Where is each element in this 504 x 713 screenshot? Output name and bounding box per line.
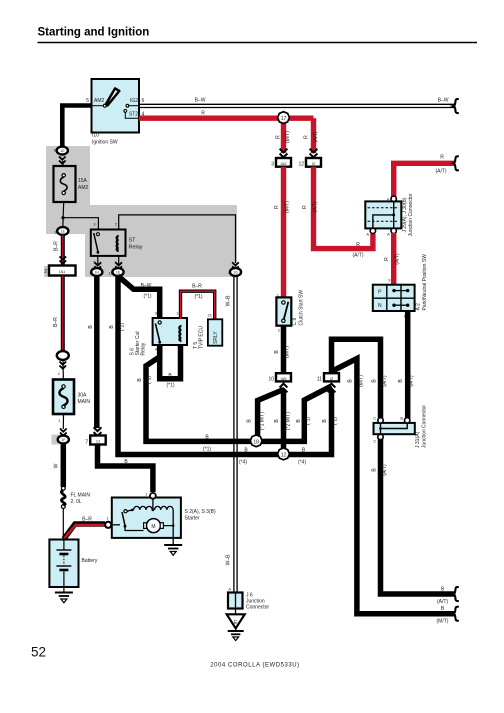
wire from starter cut relay to node 18 to I2 lower [146, 344, 332, 441]
wire node 12 horizontal from oval 1E to I2 lower [118, 276, 332, 455]
ST relay contact [96, 233, 99, 236]
arrow into connector 7 [94, 427, 102, 436]
svg-text:1E: 1E [61, 230, 66, 234]
svg-text:R: R [356, 242, 360, 248]
title underline [38, 42, 478, 44]
svg-text:Ignition SW: Ignition SW [92, 140, 118, 146]
ignition switch ST2 contact [124, 110, 127, 113]
arrow up into I2 lower [328, 384, 336, 393]
svg-text:Battery: Battery [82, 558, 98, 564]
svg-text:(A/T): (A/T) [408, 375, 414, 386]
arrow into connector IA2 [280, 149, 288, 158]
svg-text:Connector: Connector [246, 605, 269, 611]
svg-text:1G: 1G [233, 271, 238, 275]
arrow up into IA5 [280, 384, 288, 393]
svg-text:A: A [228, 587, 231, 592]
wire B-W from IG2 to right edge (double line) [139, 103, 455, 105]
node 18 splice octagon [250, 435, 262, 447]
junction dot on fuse output [61, 216, 64, 219]
svg-text:IA2: IA2 [280, 161, 287, 166]
ST relay box [91, 230, 126, 256]
wire W to fusible link [61, 444, 67, 488]
svg-text:R: R [274, 205, 280, 209]
svg-text:12: 12 [281, 453, 287, 459]
ST relay coil [117, 236, 119, 251]
svg-text:W: W [54, 463, 60, 468]
wire red J30 terminal B up to right edge [394, 163, 454, 197]
wire U loop under starter cut relay [160, 344, 181, 379]
continuation brace for B A/T [453, 607, 458, 621]
svg-text:B–W: B–W [195, 98, 206, 104]
svg-text:(*4): (*4) [298, 460, 306, 466]
svg-text:N: N [378, 303, 382, 309]
svg-text:ST: ST [129, 238, 137, 244]
svg-text:(*1): (*1) [194, 294, 202, 300]
svg-text:ST2: ST2 [129, 112, 138, 118]
terminal A of J29 left [370, 228, 375, 233]
svg-text:(A/T): (A/T) [382, 375, 388, 386]
svg-text:(A/T): (A/T) [382, 464, 388, 475]
node 17 splice octagon [278, 112, 290, 124]
svg-text:(A/T): (A/T) [437, 599, 448, 605]
continuation brace for B-W [453, 99, 458, 113]
wire B park neutral switch to J31 [405, 311, 411, 419]
junction connector J31 [374, 423, 415, 434]
arrow into oval 1E lower [115, 262, 122, 269]
svg-text:Starting and Ignition: Starting and Ignition [38, 27, 150, 39]
wire center vertical IA5 to node 12 [281, 390, 287, 455]
battery [49, 540, 78, 588]
svg-text:(M/T): (M/T) [437, 619, 449, 625]
svg-text:3: 3 [271, 162, 274, 168]
svg-text:C 8: C 8 [292, 318, 298, 326]
svg-text:C: C [373, 416, 376, 421]
svg-text:(*2 M/T): (*2 M/T) [286, 412, 292, 430]
svg-text:IG2: IG2 [130, 98, 138, 104]
oval connector on battery feed [57, 351, 69, 360]
wire ST relay pin 5 down [97, 256, 99, 264]
wire fuse AM2 to oval 1E [62, 202, 65, 228]
continuation brace for R [453, 156, 458, 170]
arrow below oval 1D [59, 157, 66, 164]
svg-text:Relay: Relay [129, 245, 143, 251]
svg-text:A 2: A 2 [416, 303, 422, 310]
svg-text:W–B: W–B [226, 295, 232, 307]
wire B-R IA1 to 30A MAIN [61, 276, 65, 353]
svg-text:2: 2 [44, 269, 47, 275]
wire: AM2 feed from ignition switch pin 5 to junction block [62, 106, 92, 148]
wire branch to ST relay pin 3 [63, 218, 98, 230]
svg-text:B–R: B–R [54, 241, 60, 251]
svg-text:(M/T): (M/T) [284, 346, 290, 358]
svg-text:(*2): (*2) [333, 417, 339, 425]
wire B from clutch switch to connector IA5 [281, 326, 287, 373]
svg-text:C: C [373, 439, 376, 444]
svg-text:(*2): (*2) [119, 323, 125, 331]
ground point E [235, 609, 237, 615]
svg-text:(*1): (*1) [143, 294, 151, 300]
starter cut relay S-6 [153, 318, 187, 345]
arrow into connector I2 [310, 149, 318, 158]
svg-text:5: 5 [86, 98, 89, 104]
grey junction block shading R3 [85, 205, 237, 277]
grey junction block shading R2 [46, 205, 85, 234]
svg-text:AM2: AM2 [94, 98, 105, 104]
svg-text:B–R: B–R [192, 284, 202, 290]
svg-text:30A: 30A [78, 393, 88, 399]
fuse 15A AM2 [54, 166, 76, 202]
ignition switch AM2 contact and lever [92, 105, 105, 107]
wire red branch left down [281, 118, 286, 153]
svg-text:A: A [366, 232, 369, 237]
svg-text:(*4): (*4) [239, 460, 247, 466]
svg-text:1H: 1H [95, 271, 100, 275]
svg-text:R: R [440, 155, 444, 161]
svg-text:B–W: B–W [438, 98, 449, 104]
svg-text:12: 12 [298, 162, 304, 168]
wire red branch right down [311, 118, 316, 153]
svg-text:W–B: W–B [226, 554, 232, 566]
wire ST relay pin 2 to oval 1G [119, 215, 236, 263]
svg-text:(*1): (*1) [166, 383, 174, 389]
grey tag at oval connector 1F [52, 435, 60, 445]
ground below starter [172, 538, 174, 545]
svg-text:B–W: B–W [141, 283, 152, 289]
svg-text:(*1): (*1) [203, 447, 211, 453]
svg-text:(M/T): (M/T) [358, 375, 364, 387]
wire B-W oval 1E to starter cut relay [118, 276, 160, 319]
wire B-R starter cut relay to SRLY [181, 291, 215, 320]
svg-text:Relay: Relay [141, 342, 147, 355]
wire R from ST2 to node 17 and branch [139, 115, 314, 120]
svg-text:(*1): (*1) [147, 376, 153, 384]
svg-text:Junction Connector: Junction Connector [422, 405, 428, 448]
svg-text:R: R [304, 135, 310, 139]
svg-text:10: 10 [268, 377, 274, 383]
svg-text:7: 7 [85, 440, 88, 446]
terminal B of J30 [391, 196, 396, 201]
ground symbol below E [235, 628, 237, 630]
svg-text:(A/T): (A/T) [395, 253, 401, 264]
svg-text:52: 52 [31, 645, 46, 660]
svg-text:(A/T): (A/T) [352, 253, 363, 259]
N row contacts [392, 304, 395, 307]
wire red IA2 to clutch start switch [281, 167, 286, 299]
arrow above connector IA1 [60, 257, 67, 264]
svg-text:R: R [302, 205, 308, 209]
svg-text:Park/Neutral Position SW: Park/Neutral Position SW [422, 254, 428, 311]
svg-text:AM2: AM2 [78, 185, 89, 191]
wire fusible link to battery [62, 509, 64, 541]
starter motor [125, 526, 144, 530]
svg-text:TVIP ECU: TVIP ECU [199, 326, 205, 349]
svg-text:(M/T): (M/T) [284, 201, 290, 213]
svg-text:2. 0L: 2. 0L [71, 499, 82, 505]
svg-text:M: M [151, 524, 155, 530]
wire into fuse AM2 [62, 161, 65, 176]
svg-text:(A/T): (A/T) [312, 201, 318, 212]
svg-text:I10: I10 [92, 133, 99, 139]
wire W-B oval 1G to junction connector J6 (double line) [233, 276, 235, 608]
svg-text:(*1 M/T): (*1 M/T) [260, 412, 266, 430]
svg-text:2004 COROLLA (EWD533U): 2004 COROLLA (EWD533U) [210, 663, 299, 669]
park neutral position switch A2 [373, 285, 415, 311]
svg-text:J 31(A): J 31(A) [415, 432, 421, 448]
wire B-R battery to starter terminal [64, 524, 105, 539]
svg-text:FL MAIN: FL MAIN [71, 493, 91, 499]
svg-text:B–R: B–R [82, 517, 92, 523]
wire red J29 to park neutral switch [391, 233, 396, 286]
svg-text:Junction Connector: Junction Connector [408, 193, 414, 236]
svg-text:MAIN: MAIN [78, 399, 91, 405]
svg-text:1J: 1J [96, 439, 100, 444]
wire B oval 1H to connector 7 to starter [97, 276, 153, 492]
svg-text:B: B [400, 416, 403, 421]
wire ST relay pin 1 down [118, 256, 120, 264]
svg-text:R: R [201, 111, 205, 117]
wire B from I2 lower top over to J31 [332, 339, 381, 419]
starter contact [124, 510, 127, 513]
wire red I2 to junction connector J30 [314, 167, 373, 249]
wire B-R oval 1E to connector IA1 [61, 235, 65, 265]
starter coils [127, 510, 132, 511]
node 12 splice octagon [278, 448, 290, 460]
oval connector 1F [58, 436, 69, 444]
svg-text:SRLY: SRLY [213, 331, 219, 344]
svg-text:S 2(A), S 3(B): S 2(A), S 3(B) [185, 509, 216, 515]
svg-text:R: R [384, 257, 390, 261]
svg-text:15A: 15A [78, 178, 88, 184]
arrow into oval 1G [232, 262, 239, 269]
wire B A/T from J31 to bottom right edge [381, 439, 455, 594]
svg-text:17: 17 [281, 116, 287, 122]
svg-text:IA1: IA1 [59, 269, 66, 274]
svg-text:1E: 1E [116, 271, 121, 275]
arrow below oval [60, 362, 67, 369]
wire diagonal IA5 to node 18 [258, 390, 284, 442]
ignition switch box I10 [92, 79, 140, 133]
svg-text:(A/T): (A/T) [313, 131, 319, 142]
svg-text:1F: 1F [61, 438, 65, 442]
svg-text:B–R: B–R [53, 317, 59, 327]
svg-text:IA5: IA5 [280, 376, 287, 381]
svg-text:A: A [387, 232, 390, 237]
svg-text:(M/T): (M/T) [285, 131, 291, 143]
svg-text:Clutch Start SW: Clutch Start SW [298, 290, 304, 326]
grey tag at connector IA1 [44, 266, 58, 277]
svg-text:R: R [276, 135, 282, 139]
terminal A of J29 right [391, 228, 396, 233]
junction connector J29(A) J30(B) [365, 201, 401, 228]
ground below battery [63, 587, 65, 592]
svg-text:(A/T): (A/T) [435, 169, 446, 175]
svg-text:21: 21 [208, 313, 213, 318]
svg-text:18: 18 [253, 439, 259, 445]
fusible link FL MAIN 2.0L [61, 486, 65, 490]
wire B M/T tap to bottom right edge [332, 359, 455, 614]
svg-text:(*1): (*1) [306, 417, 312, 425]
svg-text:1D: 1D [60, 149, 65, 153]
svg-text:B: B [387, 197, 390, 202]
ignition switch IG2 contact [126, 104, 129, 107]
svg-text:11: 11 [317, 377, 322, 383]
P row contacts [392, 289, 395, 292]
svg-text:6: 6 [142, 98, 145, 104]
continuation brace for B M/T [453, 587, 458, 601]
arrow into oval 1H [95, 262, 102, 269]
grey junction block shading R1 [46, 146, 90, 205]
arrow into oval 1F [60, 429, 67, 436]
fuse 30A MAIN [62, 360, 65, 387]
svg-text:Starter: Starter [185, 516, 200, 522]
